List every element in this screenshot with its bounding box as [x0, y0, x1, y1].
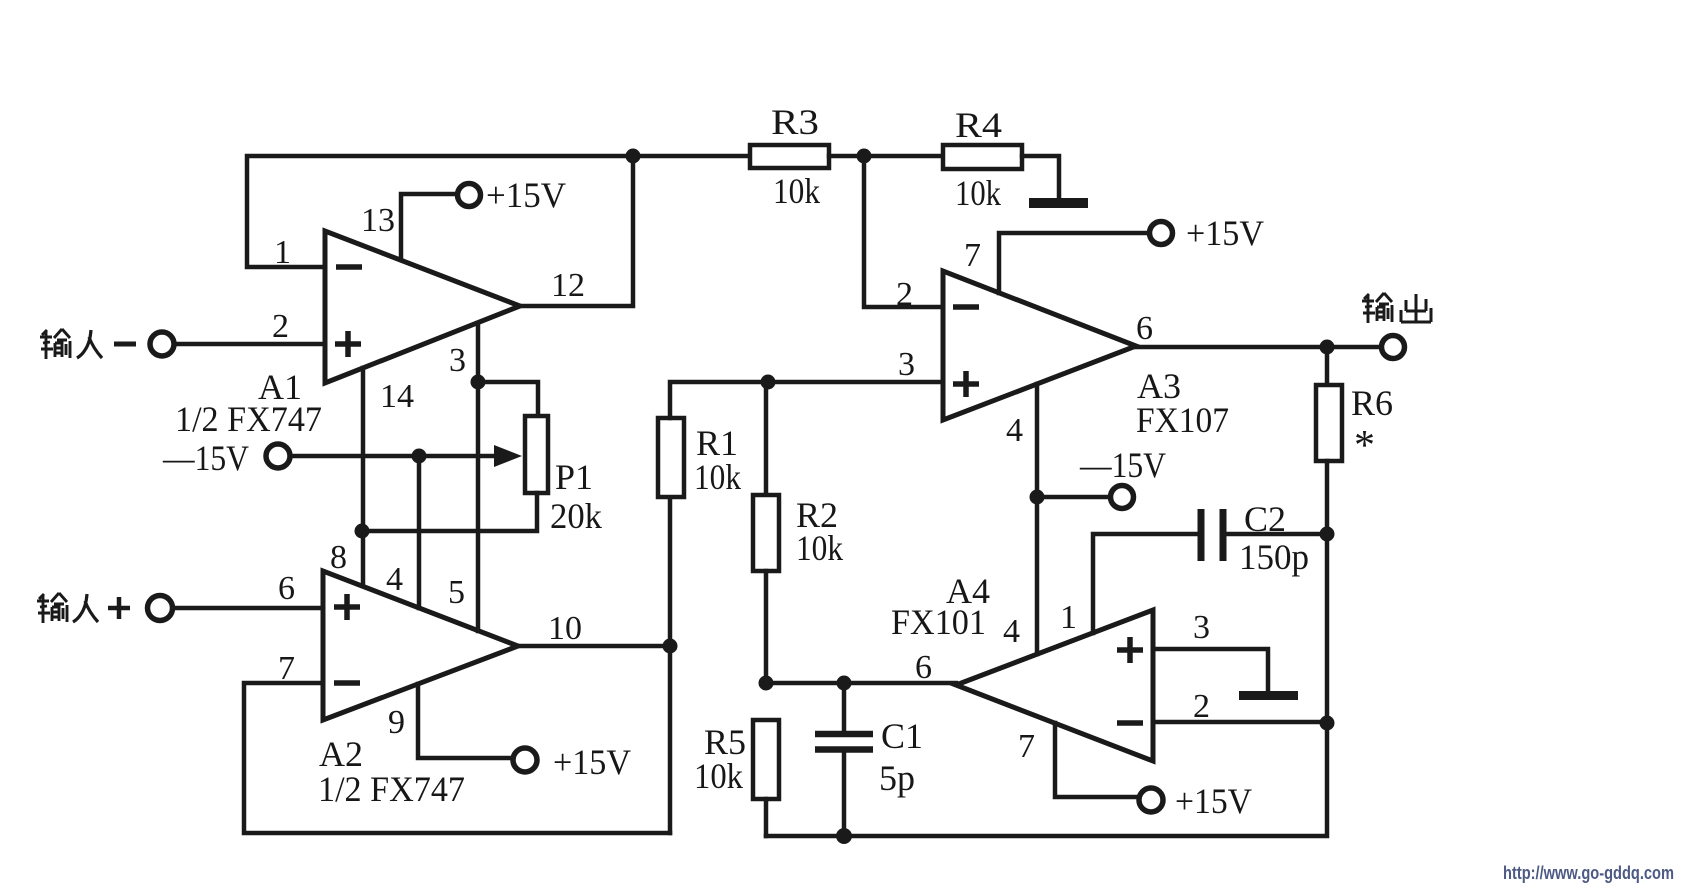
- label A2 pin 4: [386, 561, 403, 598]
- label +15V for A2: [553, 742, 631, 782]
- svg-text:4: 4: [386, 561, 403, 598]
- node junction C1 top: [837, 676, 852, 691]
- svg-text:6: 6: [278, 570, 295, 607]
- wire node to A4 pin 6: [766, 681, 956, 686]
- svg-text:3: 3: [449, 342, 466, 379]
- svg-text:10k: 10k: [955, 173, 1001, 213]
- label C1 value 5p: [879, 758, 915, 798]
- label A4 pin 2: [1193, 688, 1210, 725]
- svg-text:1/2 FX747: 1/2 FX747: [318, 769, 465, 809]
- label A3 pin 7: [964, 237, 981, 274]
- svg-text:8: 8: [330, 539, 347, 576]
- terminal +15V for A3: [1150, 222, 1173, 245]
- resistor R5: [753, 720, 779, 799]
- label R1: [696, 423, 738, 463]
- label A2 pin 7: [278, 650, 295, 687]
- svg-text:C1: C1: [881, 716, 923, 756]
- label A4 type FX101: [891, 602, 986, 642]
- label A4 pin 7: [1018, 728, 1035, 765]
- label P1: [555, 457, 593, 497]
- svg-text:P1: P1: [555, 457, 593, 497]
- svg-text:2: 2: [896, 276, 913, 313]
- svg-text:+15V: +15V: [486, 175, 566, 215]
- node junction between R3 and R4: [857, 149, 872, 164]
- P1 wiper arrow: [494, 445, 522, 467]
- op-amp A4 pointing left: [956, 610, 1153, 761]
- label R3: [771, 102, 819, 142]
- svg-text:R4: R4: [955, 105, 1002, 145]
- wire R1 top to A3 pin 3 rail: [670, 382, 943, 418]
- wire R1 bottom through junction down to feedback corner: [668, 497, 673, 833]
- op-amp A1: [325, 231, 520, 383]
- wire A3 pin 7 to +15V: [999, 233, 1149, 293]
- label A4 pin 1: [1060, 599, 1077, 636]
- node junction R2 bottom R5 top: [759, 676, 774, 691]
- label A2 type 1/2 FX747: [318, 769, 465, 809]
- node junction pin 14/8 with P1 bottom: [355, 524, 370, 539]
- ground symbol at A4 pin 3: [1239, 691, 1298, 700]
- wire A1 pin 13 to +15V: [401, 194, 457, 259]
- wire A2 pin 7 feedback loop: [244, 683, 670, 833]
- wire R5 bottom to bottom rail: [764, 799, 769, 836]
- svg-text:1/2 FX747: 1/2 FX747: [175, 399, 322, 439]
- wire R6 bottom leg down the right rail: [1325, 461, 1330, 723]
- label R4 value 10k: [955, 173, 1001, 213]
- wire A1 pin 12 output to top rail: [520, 156, 633, 306]
- svg-text:9: 9: [388, 704, 405, 741]
- wire P1 bottom to pin8 node: [363, 493, 537, 531]
- svg-text:6: 6: [915, 649, 932, 686]
- output terminal: [1382, 336, 1405, 359]
- node junction -15V on pin 4 wire: [1030, 490, 1045, 505]
- label A4 pin 4: [1003, 613, 1020, 650]
- label A4 pin 6: [915, 649, 932, 686]
- wire A3 pin 4 down to A4: [1035, 384, 1040, 654]
- svg-text:FX107: FX107: [1136, 400, 1229, 440]
- wire R2 bottom leg: [764, 571, 769, 683]
- label A3 pin 4: [1006, 412, 1023, 449]
- svg-text:20k: 20k: [550, 496, 602, 536]
- label C2: [1244, 499, 1286, 539]
- input minus terminal: [150, 332, 174, 356]
- label A1 pin 14: [380, 378, 414, 415]
- svg-text:—15V: —15V: [162, 438, 249, 478]
- capacitor C1 bottom leg: [842, 751, 847, 836]
- wire A3 pin 6 output: [1136, 345, 1381, 350]
- label A2 pin 6: [278, 570, 295, 607]
- svg-text:150p: 150p: [1239, 537, 1309, 577]
- svg-text:5: 5: [448, 574, 465, 611]
- label R6 value asterisk: [1354, 423, 1375, 469]
- label input plus (Chinese shu-ru and plus): [37, 593, 130, 623]
- label R5 value 10k: [694, 756, 743, 796]
- svg-text:1: 1: [1060, 599, 1077, 636]
- terminal +15V for A2: [513, 748, 537, 772]
- label A2 pin 9: [388, 704, 405, 741]
- node junction on -15V wire: [412, 449, 427, 464]
- terminal -15V left: [266, 444, 290, 468]
- svg-text:10k: 10k: [796, 528, 843, 568]
- label +15V for A3: [1186, 213, 1264, 253]
- node junction C2 right on rail: [1320, 527, 1335, 542]
- watermark: [1503, 863, 1674, 883]
- label R5: [704, 722, 746, 762]
- label +15V for A1: [486, 175, 566, 215]
- potentiometer P1: [525, 416, 548, 493]
- label R6: [1351, 383, 1393, 423]
- node junction C1 bottom on rail: [836, 828, 852, 844]
- node junction A1 pin 3: [471, 375, 486, 390]
- label A3 pin 3: [898, 346, 915, 383]
- svg-text:+15V: +15V: [1175, 781, 1252, 821]
- wire A1 pin 3 down through pin 5 into A2: [476, 323, 481, 631]
- svg-text:2: 2: [1193, 688, 1210, 725]
- label output (Chinese shu-chu): [1362, 293, 1431, 323]
- resistor R3: [750, 145, 829, 168]
- svg-text:7: 7: [1018, 728, 1035, 765]
- label -15V left: [162, 438, 249, 478]
- label A2 pin 5: [448, 574, 465, 611]
- wire R6 top leg: [1325, 347, 1330, 385]
- wire -15V to P1 wiper: [290, 454, 498, 459]
- op-amp A3: [943, 271, 1136, 420]
- label R4: [955, 105, 1002, 145]
- wire pin 3 junction to P1 top: [478, 382, 538, 416]
- label A4 pin 3: [1193, 609, 1210, 646]
- label A1 pin 13: [361, 202, 395, 239]
- wire A2 pin 9 to +15V: [418, 684, 513, 758]
- label C2 value 150p: [1239, 537, 1309, 577]
- resistor R2: [753, 495, 779, 571]
- wire input minus to A1 pin 2: [174, 342, 325, 347]
- svg-text:10k: 10k: [694, 457, 741, 497]
- svg-text:R6: R6: [1351, 383, 1393, 423]
- wire A1 pin 14 to A2 pin 8: [361, 368, 366, 586]
- svg-text:12: 12: [551, 267, 585, 304]
- op-amp A2: [323, 571, 518, 720]
- svg-text:3: 3: [1193, 609, 1210, 646]
- svg-text:*: *: [1354, 423, 1375, 469]
- svg-text:R3: R3: [771, 102, 819, 142]
- label A4: [946, 571, 990, 611]
- svg-text:10k: 10k: [694, 756, 743, 796]
- wire R4 to ground: [1022, 156, 1059, 197]
- svg-text:4: 4: [1003, 613, 1020, 650]
- wire bottom right rail: [766, 723, 1327, 836]
- label A2 pin 8: [330, 539, 347, 576]
- wire A2 pin 10 output: [518, 644, 670, 649]
- label +15V for A4: [1175, 781, 1252, 821]
- svg-text:+15V: +15V: [1186, 213, 1264, 253]
- svg-text:10: 10: [548, 610, 582, 647]
- label A3 type FX107: [1136, 400, 1229, 440]
- label A1: [258, 367, 302, 407]
- wire A4 pin 1 up to C2: [1093, 534, 1197, 633]
- wire A2 pin 4 from -15V wire: [417, 456, 422, 608]
- svg-text:+15V: +15V: [553, 742, 631, 782]
- terminal +15V for A4: [1139, 788, 1163, 812]
- svg-text:14: 14: [380, 378, 414, 415]
- svg-text:4: 4: [1006, 412, 1023, 449]
- svg-text:10k: 10k: [773, 171, 820, 211]
- node junction R2 top on pin 3 rail: [761, 375, 776, 390]
- label P1 value 20k: [550, 496, 602, 536]
- svg-text:1: 1: [274, 234, 291, 271]
- label A3 pin 2: [896, 276, 913, 313]
- capacitor C2: [1201, 509, 1223, 561]
- wire feedback A1 pin 1 to top rail: [247, 156, 750, 267]
- wire R2 top leg: [764, 382, 769, 495]
- label R3 value 10k: [773, 171, 820, 211]
- resistor R6: [1316, 385, 1342, 461]
- label A2 pin 10: [548, 610, 582, 647]
- label A2: [319, 734, 363, 774]
- label A1 type 1/2 FX747: [175, 399, 322, 439]
- label A1 pin 2: [272, 308, 289, 345]
- svg-text:http://www.go-gddq.com: http://www.go-gddq.com: [1503, 863, 1674, 883]
- label C1: [881, 716, 923, 756]
- label R2: [796, 495, 838, 535]
- node junction output with R6: [1320, 340, 1335, 355]
- label A1 pin 3: [449, 342, 466, 379]
- wire A4 pin 3 to ground: [1153, 649, 1268, 690]
- svg-text:7: 7: [964, 237, 981, 274]
- label A1 pin 12: [551, 267, 585, 304]
- svg-text:6: 6: [1136, 310, 1153, 347]
- svg-text:2: 2: [272, 308, 289, 345]
- ground symbol at R4: [1029, 198, 1088, 208]
- svg-text:FX101: FX101: [891, 602, 986, 642]
- label A1 pin 1: [274, 234, 291, 271]
- input plus terminal: [148, 596, 173, 621]
- node junction A2 output with R1 and feedback: [663, 639, 678, 654]
- resistor R1: [658, 418, 684, 497]
- wire C2 to right rail: [1227, 532, 1327, 537]
- capacitor C1 top leg: [842, 683, 847, 732]
- wire input plus to A2 pin 6: [173, 606, 323, 611]
- label R1 value 10k: [694, 457, 741, 497]
- node junction A4 pin 2 on rail: [1320, 716, 1335, 731]
- svg-text:5p: 5p: [879, 758, 915, 798]
- label R2 value 10k: [796, 528, 843, 568]
- wire A4 pin 7 to +15V: [1055, 723, 1139, 797]
- resistor R4: [943, 145, 1022, 169]
- wire R3 to R4: [829, 154, 943, 159]
- label A3 pin 6: [1136, 310, 1153, 347]
- terminal -15V right: [1111, 486, 1134, 509]
- wire A4 pin 2 to rail: [1153, 720, 1327, 725]
- svg-text:—15V: —15V: [1079, 445, 1166, 485]
- svg-text:13: 13: [361, 202, 395, 239]
- wire A3 pin 2 from R3/R4 node: [864, 156, 943, 307]
- svg-text:3: 3: [898, 346, 915, 383]
- capacitor C1: [815, 734, 873, 750]
- label input minus (Chinese shu-ru and dash): [40, 329, 136, 359]
- node junction top rail at R3 left: [626, 149, 641, 164]
- svg-text:A2: A2: [319, 734, 363, 774]
- wire node to -15V terminal: [1037, 495, 1111, 500]
- terminal +15V for A1: [458, 184, 481, 207]
- label A3: [1137, 366, 1181, 406]
- label -15V right: [1079, 445, 1166, 485]
